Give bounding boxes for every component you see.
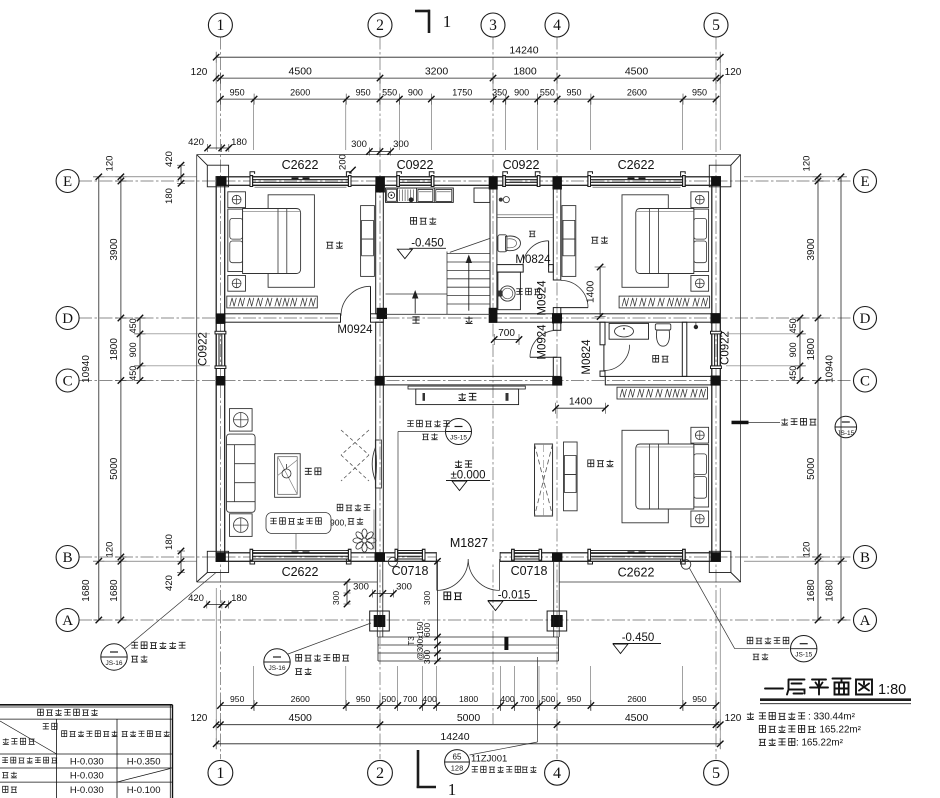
witness lines bottom [216,588,720,749]
svg-text:900: 900 [128,342,138,357]
grid bubble E right [854,170,877,193]
window C2622 top-left [250,172,351,187]
corner column top-right [709,165,731,187]
label railing (fang hu lan gan) [337,504,370,510]
wash basin [500,286,515,301]
wall D row grid1 segment [225,314,341,322]
svg-text:C2622: C2622 [282,158,319,172]
shrine box [416,389,519,405]
svg-text:300: 300 [396,582,412,593]
dimension tier left sub (450/900/450) [139,318,141,381]
sofa [227,434,256,512]
svg-text:1400: 1400 [569,396,593,408]
window C0922 left wall [215,331,226,368]
wall master-bath divider [682,322,687,376]
svg-text:120: 120 [191,713,208,724]
dimension tier top grid [216,77,720,79]
label porch [444,592,462,600]
elder room side cabinet [564,442,578,511]
svg-text:C: C [63,373,73,389]
column E/4 [553,176,562,189]
grid bubble E left [56,170,79,193]
table row 1 [2,757,57,763]
svg-text:420: 420 [164,151,175,167]
svg-text:120: 120 [105,156,116,172]
master bath toilet [655,324,671,330]
svg-text:900: 900 [408,88,423,98]
svg-text:900: 900 [514,88,529,98]
dim 1400 bedroom2 [599,267,601,317]
column E/2 [375,176,385,192]
label down [412,317,419,323]
svg-text:500: 500 [541,694,556,704]
svg-text:200: 200 [338,154,349,170]
svg-text:400: 400 [500,694,515,704]
eave line top [197,154,741,156]
wall C row grid4-grid5 segment [605,376,712,385]
svg-text:@300x150: @300x150 [416,621,425,660]
porch column A/4 [547,611,567,631]
svg-text:950: 950 [692,88,707,98]
svg-text:4500: 4500 [289,712,313,724]
bedroom2 wardrobe [619,296,710,308]
svg-text:C2622: C2622 [618,158,655,172]
svg-text:5: 5 [712,765,720,782]
svg-text:950: 950 [230,88,245,98]
svg-text:A: A [860,613,871,629]
porch step section tick [504,637,508,650]
porch slab edge left [376,561,378,637]
label wc [529,231,535,237]
drain board hatch [400,190,414,202]
leader: prefab part 3 [681,560,691,570]
vanity area [498,272,521,310]
witness lines right [726,177,847,561]
svg-text:1800: 1800 [513,66,537,78]
svg-text:10940: 10940 [825,355,836,383]
svg-text:-0.015: -0.015 [498,590,531,602]
svg-text:2600: 2600 [291,694,310,704]
svg-text:65: 65 [453,753,462,762]
svg-text:-0.450: -0.450 [411,238,444,250]
shower divider [497,214,553,216]
grid bubble A right [854,609,877,632]
leader: deco column 2 detail [264,649,290,675]
svg-text:JS-16: JS-16 [106,660,123,667]
column B/2 [375,553,386,562]
svg-text:500: 500 [382,694,397,704]
svg-text:4500: 4500 [625,66,649,78]
dimension tier right overall [840,177,842,620]
corner column top-left [207,165,228,187]
column D/2 [377,308,387,319]
tv [375,440,381,488]
stair arrow up [468,256,470,311]
bedroom1 bed set [228,192,315,291]
exterior wall top [216,177,720,186]
leader: prefab part 4 [407,420,449,426]
grid bubble C right [854,369,877,392]
svg-text:JS-15: JS-15 [450,435,467,442]
wall grid3 E-D [490,185,497,314]
svg-text:M0924: M0924 [537,280,549,316]
svg-text:2: 2 [376,765,384,782]
stairs [386,238,491,314]
svg-text:700: 700 [520,694,535,704]
grid line 3 [492,37,494,725]
section mark top [415,10,430,13]
svg-text:950: 950 [356,694,371,704]
elder room wardrobe [617,387,708,399]
stair arrow down [414,292,416,314]
table: floor level schedule [0,705,173,798]
svg-text:5000: 5000 [109,457,120,480]
svg-text:: 330.44m²: : 330.44m² [808,712,856,723]
svg-text:180: 180 [164,534,175,550]
svg-text:C0718: C0718 [511,564,548,578]
svg-text:E: E [860,174,869,190]
svg-text:450: 450 [128,318,138,333]
toilet wc [498,235,507,252]
porch mini dims vertical [346,582,348,604]
door M0924 bedroom1 [341,313,370,323]
eave line right [740,155,742,582]
window C0718 bottom-left [395,549,425,560]
grid bubble 2 bottom [368,760,393,785]
svg-text:450: 450 [788,366,798,381]
svg-text:C2622: C2622 [282,565,319,579]
exterior wall right [712,177,721,562]
svg-text:M1827: M1827 [450,536,488,550]
grid bubble 3 top [481,13,505,37]
svg-text:700: 700 [498,328,515,339]
svg-text:3900: 3900 [109,238,120,261]
eave line left [196,155,198,582]
grid bubble D left [56,307,79,330]
svg-text:JS-15: JS-15 [795,652,812,659]
dimension tier left overall [98,177,100,620]
exterior wall bottom [216,553,720,562]
table title [38,709,98,715]
column C/1 [216,376,226,386]
grid line A [79,619,854,621]
opening M1827 in B wall [436,552,500,562]
label living room [305,468,321,475]
leader: apron detail (san shui) [732,421,749,425]
armchair 2 [230,514,253,537]
grid line 1 [219,37,221,760]
svg-text:300: 300 [351,139,367,150]
svg-text:B: B [63,550,73,566]
column C/4 [552,377,562,386]
svg-text:950: 950 [566,88,581,98]
svg-text:T3: T3 [407,636,416,646]
svg-text:H-0.030: H-0.030 [70,785,104,796]
column D/4 [552,313,562,323]
svg-text:H-0.030: H-0.030 [70,771,104,782]
svg-text:950: 950 [356,88,371,98]
kitchen/laundry counter [386,188,454,202]
exterior wall left [216,177,225,562]
wall D row grid3-grid4 [497,314,553,322]
column C/5 [711,376,721,386]
grid bubble B right [854,546,877,569]
title underline [760,698,911,701]
void dashed X [341,430,369,455]
grid bubble 4 top [545,13,569,37]
column E/1 [217,176,227,186]
column D/3 [489,308,498,323]
svg-text:JS-16: JS-16 [269,665,286,672]
window C2622 bottom-right [588,549,685,564]
svg-text:1680: 1680 [81,579,92,602]
grid line 2 [379,37,381,760]
shrine shelf [408,386,525,389]
dimension tier right grid [817,177,819,620]
svg-text:300: 300 [393,139,409,150]
master bath basin cabinet [609,323,648,339]
title: first floor plan [765,679,872,695]
leader from railing note [373,510,375,550]
svg-text:C0922: C0922 [198,332,210,366]
window C0718 bottom-right [512,549,542,560]
svg-text:3900: 3900 [806,238,817,261]
porch column A/2 [370,611,390,631]
plant ornament [353,529,376,552]
label bedroom2 [591,236,607,243]
grid bubble 5 top [704,13,728,37]
svg-text:2600: 2600 [627,88,647,98]
railing note box [266,513,331,534]
notes [747,712,754,719]
wall grid2 E-D [376,185,384,314]
wall master-bath left upper [600,322,605,345]
washing machine 2 [436,190,452,202]
grid bubble 1 top [208,13,232,37]
svg-text:B: B [860,550,870,566]
svg-text:2600: 2600 [290,88,310,98]
floor drain laundry [409,197,414,202]
svg-text:420: 420 [188,137,204,148]
svg-text:420: 420 [188,593,204,604]
label wash area [516,288,540,294]
eave line bottom left [197,581,377,583]
shower head [499,198,503,202]
label hall [455,460,472,467]
grid bubble B left [56,546,79,569]
column B/1 [216,553,226,562]
mini dim 420/180 bottom-left horizontal [207,604,229,606]
svg-text:4: 4 [553,17,561,34]
svg-text:3: 3 [489,17,497,34]
dimension tier left grid [120,177,122,620]
svg-text:5000: 5000 [806,457,817,480]
wall grid4 E-D upper [553,185,561,280]
svg-text:550: 550 [540,88,555,98]
svg-text:M0924: M0924 [537,324,549,360]
leader: step detail bubble [537,657,539,742]
column B/4 [552,553,562,562]
column E/5 [711,176,721,186]
svg-text:400: 400 [422,694,437,704]
svg-text:H-0.100: H-0.100 [127,785,161,796]
mini dim 180/420 bottom-left vertical [180,551,182,573]
svg-text:300: 300 [422,591,432,605]
svg-text:1800: 1800 [459,694,478,704]
column D/5 [711,313,721,323]
elder room bed set (mirrored+shifted) [622,427,709,526]
svg-text:D: D [860,311,871,327]
svg-text:1800: 1800 [806,338,817,361]
svg-text:2600: 2600 [627,694,646,704]
wall bath lower (wc floor wall) [497,265,523,273]
svg-text:1:80: 1:80 [878,682,906,698]
grid line C [79,380,854,382]
window C0922 top-1 [397,172,434,187]
mini dim 300/300 bottom grid2 [372,593,393,595]
svg-text:450: 450 [788,318,798,333]
mini dim 300/300 top grid2 [369,151,390,153]
grid bubble A left [56,609,79,632]
coffee table [275,454,301,498]
svg-text:10940: 10940 [81,355,92,383]
door M0824 wc [548,241,550,267]
svg-text:180: 180 [231,593,247,604]
svg-text:900,: 900, [330,518,347,528]
svg-text:700: 700 [403,694,418,704]
leader: deco column 1 detail [101,644,127,670]
svg-text:C0922: C0922 [503,158,540,172]
svg-text:: 165.22m²: : 165.22m² [796,738,844,749]
svg-text:350: 350 [492,88,507,98]
svg-text:,: , [517,765,519,774]
dimension tier top detail [220,98,716,100]
svg-text:3200: 3200 [425,66,449,78]
svg-text:300: 300 [331,591,341,605]
svg-text:1: 1 [216,765,224,782]
svg-text:14240: 14240 [440,731,469,743]
door M0924 bedroom2 [561,307,588,309]
grid bubble D right [854,307,877,330]
bedroom1 wardrobe [227,296,317,308]
svg-text:1: 1 [443,12,452,31]
mini dim 420/180 top-left vertical [180,165,182,183]
svg-text:2: 2 [376,17,384,34]
column C/2 [375,377,385,386]
svg-text:H-0.030: H-0.030 [70,757,104,768]
svg-text:1680: 1680 [825,579,836,602]
svg-text:C2622: C2622 [618,566,655,580]
svg-text:950: 950 [692,694,707,704]
window C2622 top-right [588,172,685,187]
svg-text:5: 5 [712,17,720,34]
wall grid2 D-B [376,322,384,553]
grid line D [79,317,854,319]
svg-text:300: 300 [353,582,369,593]
wall C row grid2-grid4 (shrine wall) [376,376,554,385]
floor drain master bath [694,325,698,329]
washing machine 1 [418,190,433,202]
corner column bottom-left [207,551,228,572]
table headers [43,723,57,729]
dimension tier top overall [216,56,720,58]
section mark bottom [417,750,420,788]
porch slab edge right [553,561,555,637]
svg-text:C0718: C0718 [392,564,429,578]
window C0922 right wall [711,331,722,368]
svg-text:120: 120 [802,156,813,172]
svg-text:1680: 1680 [806,579,817,602]
table row 3 [3,786,17,792]
armchair 1 [230,409,253,432]
door M0824 master bath [603,345,605,371]
column B/5 [711,553,721,562]
svg-text:1: 1 [217,17,225,34]
svg-text:120: 120 [725,713,742,724]
svg-text:4500: 4500 [625,712,649,724]
grid bubble 4 bottom [545,760,570,785]
label bedroom1 [326,241,342,248]
grid bubble 2 top [368,13,392,37]
svg-text:4: 4 [553,765,561,782]
column E/3 [489,176,498,189]
window C0922 top-2 [503,172,540,187]
label laundry (xi yi qu) [411,217,437,224]
bedroom2 bed set (mirrored) [622,192,709,291]
dimension tier bottom overall [216,743,720,745]
svg-text:C: C [860,373,870,389]
counter right piece [474,188,490,202]
svg-text:4500: 4500 [289,66,313,78]
bedroom2 side cabinet [562,206,576,277]
svg-text:C0922: C0922 [720,331,732,365]
grid line 4 [556,37,558,760]
svg-text:±0.000: ±0.000 [450,470,485,482]
dimension tier bottom grid [216,724,720,726]
svg-text:C0922: C0922 [397,158,434,172]
svg-text:A: A [62,613,73,629]
svg-text:1400: 1400 [586,280,597,303]
wall grid4 D-C lower [553,357,561,376]
opening elder room (1400) [556,407,606,409]
witness lines top [216,52,720,150]
svg-text:14240: 14240 [509,45,538,57]
eave line bottom right [560,581,741,583]
svg-text:128: 128 [451,764,464,773]
svg-text:1800: 1800 [109,338,120,361]
bedroom1 side cabinet [361,206,375,277]
svg-text:D: D [62,311,73,327]
svg-text:: 165.22m²: : 165.22m² [814,725,862,736]
table row 2 [2,772,17,778]
svg-text:120: 120 [105,542,116,558]
svg-text:120: 120 [802,542,813,558]
svg-text:1750: 1750 [452,88,472,98]
svg-text:E: E [63,174,72,190]
svg-text:5000: 5000 [457,712,481,724]
svg-text:950: 950 [567,694,582,704]
svg-text:M0924: M0924 [337,324,373,336]
grid line B [79,556,854,558]
grid line E [79,180,854,182]
porch steps [378,637,559,661]
flue duct [535,444,553,516]
svg-text:M0824: M0824 [581,339,593,375]
svg-text:1: 1 [448,780,457,798]
mini dim 420/180 top-left horizontal [208,147,229,149]
window C2622 bottom-left [250,549,351,564]
svg-text:950: 950 [230,694,245,704]
